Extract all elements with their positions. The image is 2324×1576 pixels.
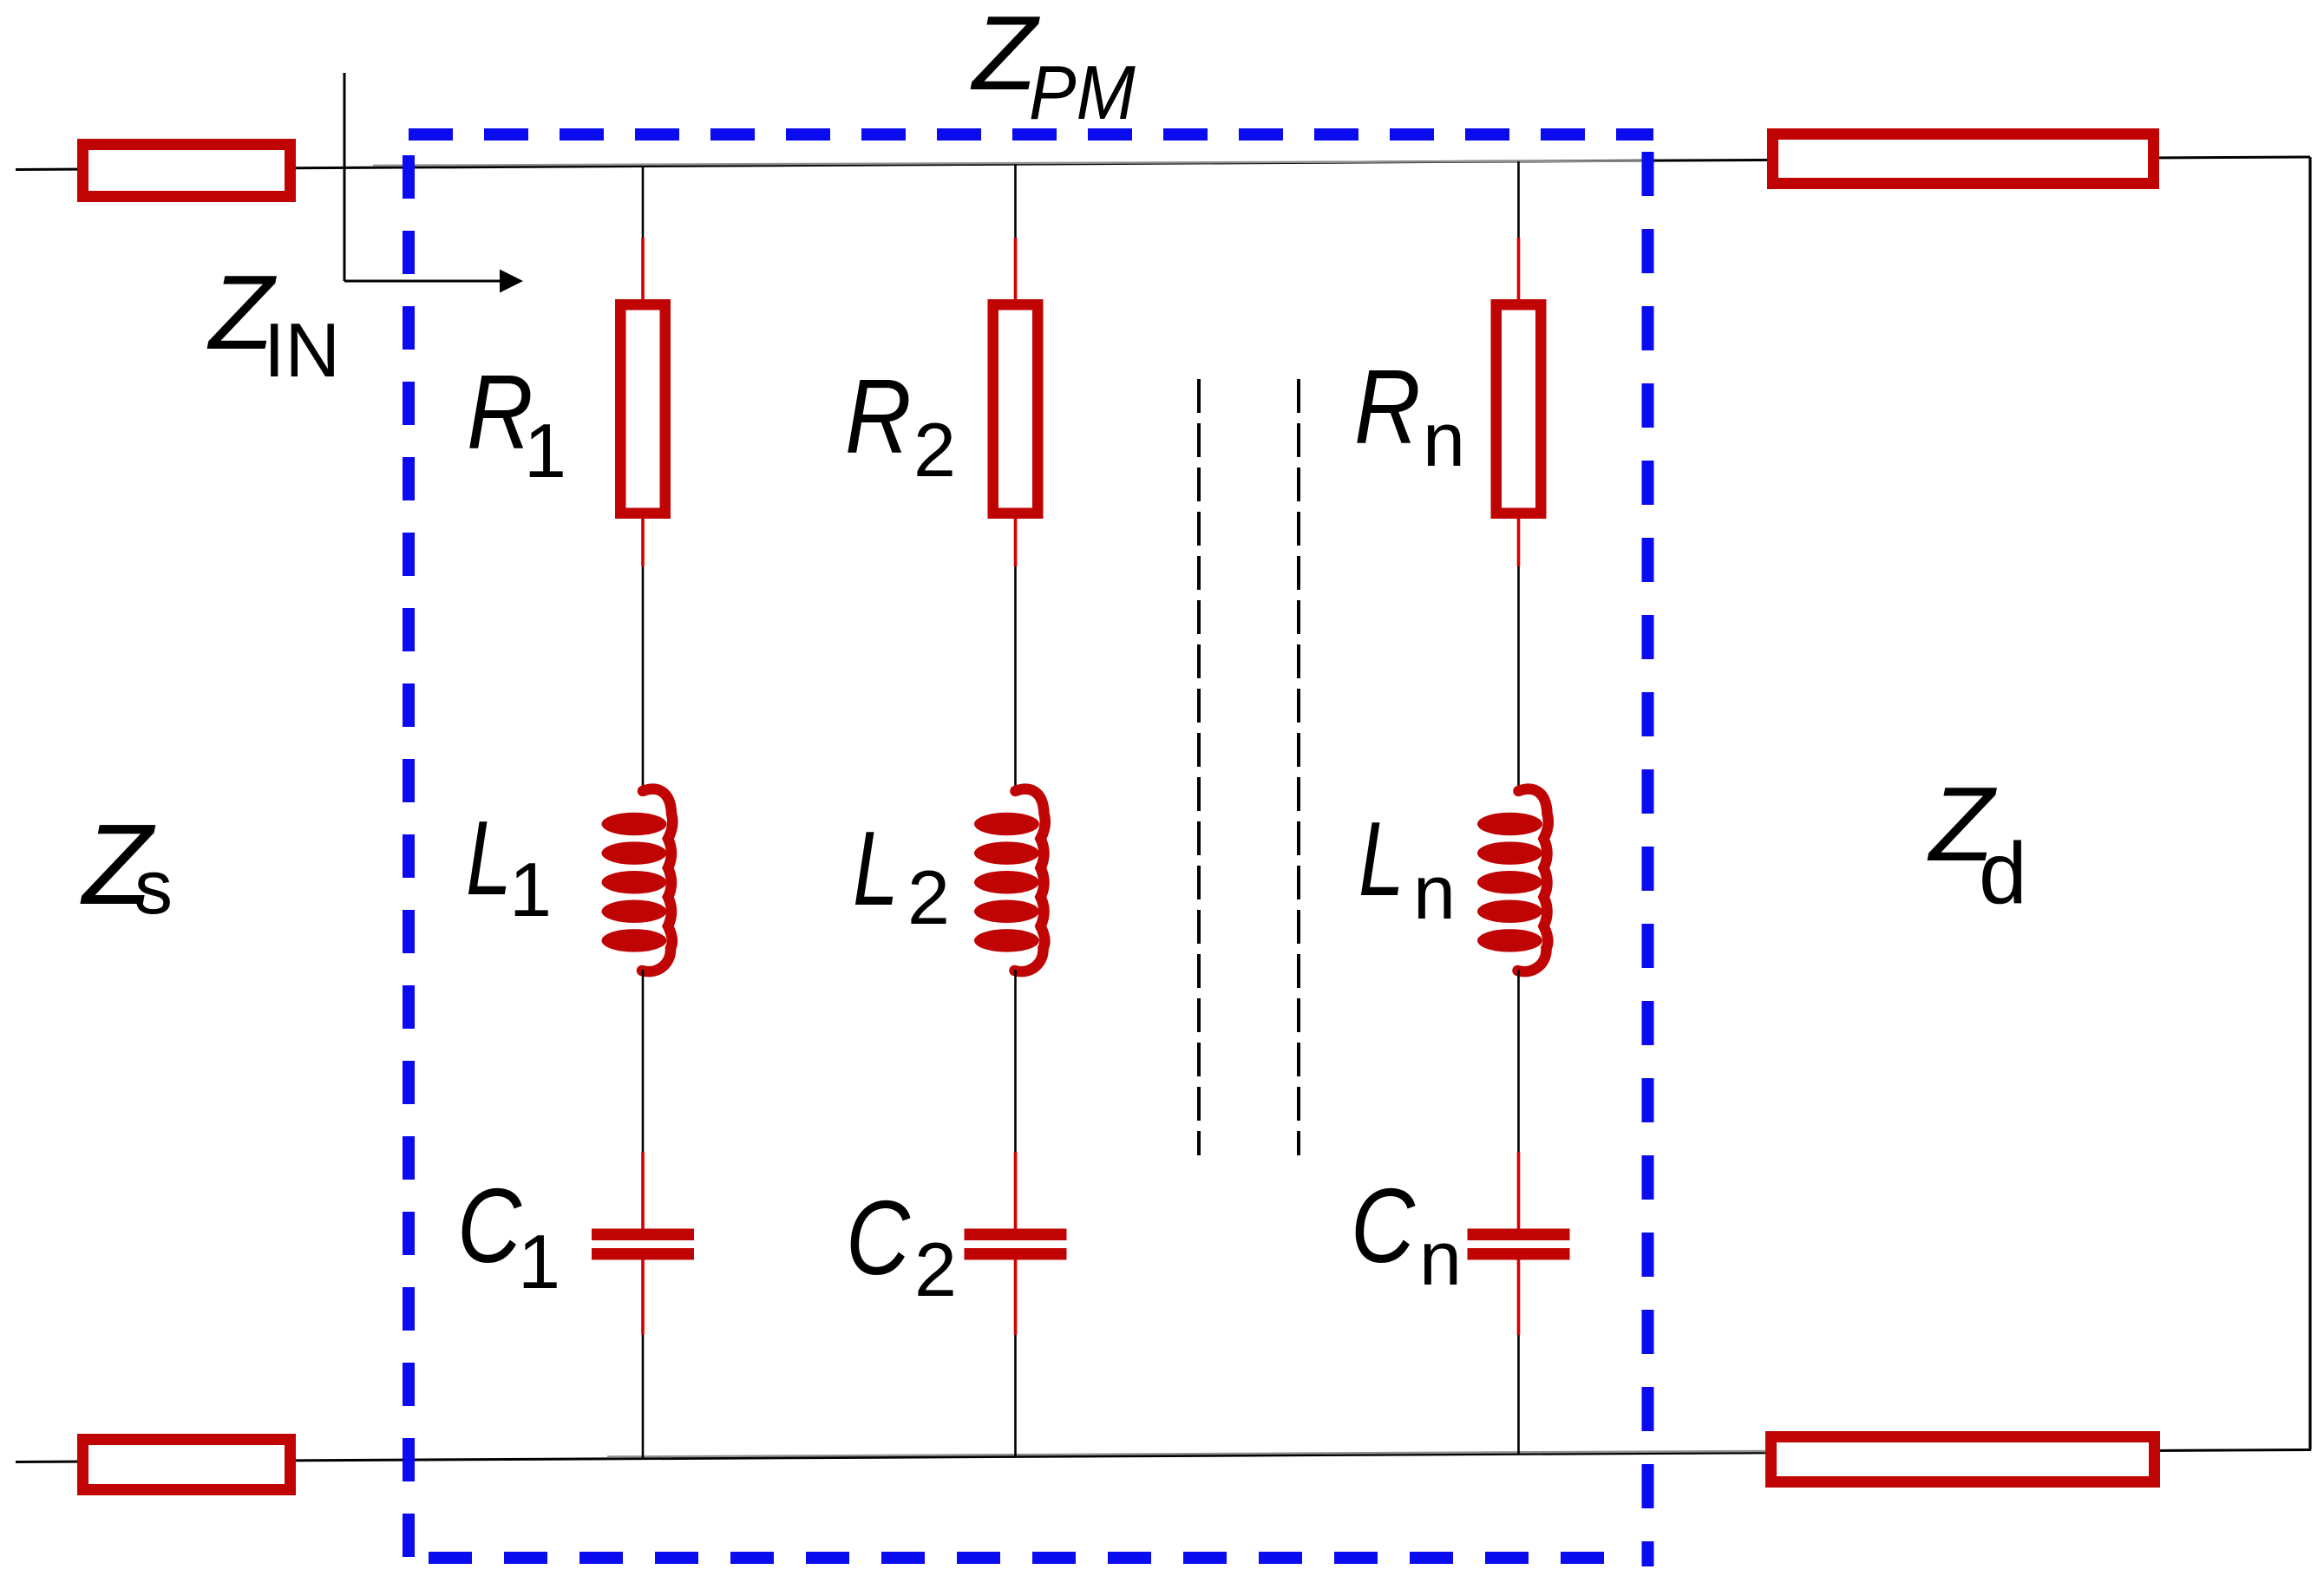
capacitor Cn (1468, 1229, 1570, 1260)
wire Rn to Ln (1517, 566, 1520, 792)
svg-text:1: 1 (518, 1219, 560, 1305)
port block source bottom (Zs) (83, 1440, 291, 1490)
inductor L1 (602, 789, 673, 971)
wire red stub below Rn (1517, 519, 1521, 566)
node Z_PM boundary dashed box bottom edge (409, 1552, 1604, 1564)
wire top rail (16, 157, 2310, 170)
capacitor C1 (592, 1229, 694, 1260)
wire red stub below R2 (1014, 519, 1018, 566)
wire red stub above C1 (641, 1152, 645, 1229)
svg-text:1: 1 (509, 847, 552, 932)
wire red stub above R1 (641, 238, 645, 301)
svg-text:2: 2 (914, 1226, 957, 1312)
svg-text:2: 2 (907, 854, 950, 940)
wire R2 to L2 (1014, 566, 1017, 792)
svg-text:2: 2 (913, 407, 956, 493)
capacitor C2 (965, 1229, 1067, 1260)
svg-text:R: R (845, 357, 912, 476)
wire red stub below C2 (1014, 1260, 1018, 1336)
wire C1 to bottom rail (642, 1335, 645, 1459)
node Z_PM boundary dashed box right edge (1642, 152, 1654, 1566)
resistor R1 (620, 304, 665, 513)
node Z_PM boundary dashed box top edge (409, 128, 1653, 141)
wire bottom rail ghost (607, 1451, 1765, 1457)
wire branch 1 top (node to R1) (642, 167, 645, 239)
wire red stub above Cn (1517, 1152, 1521, 1229)
wire bottom rail (16, 1450, 2311, 1462)
node Z_IN reference plane line (344, 73, 346, 281)
wire L2 to C2 (1014, 970, 1017, 1152)
wire Cn to bottom rail (1517, 1335, 1520, 1454)
wire red stub below R1 (641, 519, 645, 566)
svg-text:n: n (1413, 849, 1456, 935)
svg-text:n: n (1423, 396, 1465, 482)
wire red stub below Cn (1517, 1260, 1521, 1336)
resistor R2 (993, 304, 1038, 513)
wire continuation dashed line A (1197, 379, 1201, 1155)
port block drain top (Zd) (1773, 134, 2154, 184)
svg-text:L: L (466, 800, 512, 918)
wire right vertical (2308, 157, 2311, 1450)
svg-text:C: C (457, 1167, 522, 1285)
svg-text:s: s (134, 844, 173, 930)
wire top rail ghost (373, 160, 1653, 165)
svg-text:C: C (846, 1179, 911, 1297)
svg-text:PM: PM (1029, 50, 1136, 135)
svg-text:R: R (1354, 348, 1421, 467)
svg-text:IN: IN (264, 307, 340, 393)
wire Z_IN arrow (344, 280, 503, 283)
wire branch 2 top (node to R2) (1014, 164, 1017, 238)
port block drain bottom (Zd) (1771, 1437, 2155, 1482)
svg-text:n: n (1419, 1215, 1462, 1301)
inductor L2 (974, 789, 1045, 971)
wire C2 to bottom rail (1014, 1335, 1017, 1456)
inductor Ln (1477, 789, 1548, 971)
node Z_PM boundary dashed box left edge (403, 155, 415, 1558)
port block source top (Zs) (83, 145, 291, 197)
svg-text:d: d (1979, 825, 2027, 922)
wire red stub above R2 (1014, 238, 1018, 301)
svg-text:1: 1 (524, 408, 566, 494)
svg-text:L: L (1358, 801, 1404, 919)
svg-text:C: C (1351, 1167, 1416, 1285)
wire Ln to Cn (1517, 970, 1520, 1152)
wire continuation dashed line B (1297, 379, 1300, 1155)
wire red stub above C2 (1014, 1152, 1018, 1229)
wire L1 to C1 (642, 970, 645, 1152)
wire red stub above Rn (1517, 238, 1521, 301)
resistor Rn (1496, 304, 1542, 513)
wire branch n top (node to Rn) (1517, 161, 1520, 238)
wire R1 to L1 (642, 566, 645, 792)
wire red stub below C1 (641, 1260, 645, 1336)
svg-text:L: L (853, 810, 899, 928)
